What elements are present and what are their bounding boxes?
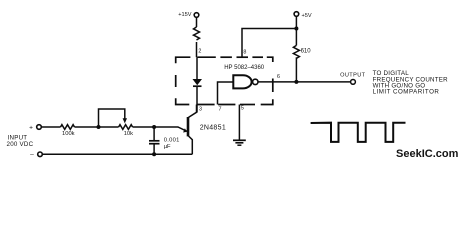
NAND gate U1a	[233, 75, 258, 88]
wire pin 7 to gate input	[218, 82, 234, 105]
svg-text:5: 5	[241, 105, 244, 111]
ground	[233, 140, 246, 145]
wire photodiode to pin 3	[196, 86, 198, 112]
svg-text:+15V: +15V	[178, 12, 191, 18]
photodiode D1	[193, 79, 203, 86]
svg-text:0.001: 0.001	[164, 137, 180, 143]
svg-text:3: 3	[199, 106, 202, 112]
wire + terminal to 100k	[41, 126, 60, 128]
wire - terminal bottom rail	[42, 153, 192, 155]
potentiometer 10k	[119, 125, 134, 138]
svg-text:–: –	[30, 151, 34, 158]
wire +5V down	[295, 16, 297, 45]
wire junction to pin 8	[242, 29, 296, 58]
svg-text:SeekIC.com: SeekIC.com	[396, 148, 459, 160]
wire pot to cap junction and UJT emitter	[133, 126, 179, 128]
+5V supply terminal	[294, 12, 312, 20]
wire pin 5 to ground	[238, 105, 240, 141]
svg-text:LIMIT COMPARITOR: LIMIT COMPARITOR	[373, 89, 440, 96]
output waveform	[311, 123, 406, 142]
svg-text:OUTPUT: OUTPUT	[340, 72, 366, 78]
node junction capacitor top	[152, 125, 156, 129]
svg-text:6: 6	[277, 74, 280, 80]
svg-text:610: 610	[301, 49, 312, 55]
resistor 610	[293, 45, 311, 58]
wire resistor to pin 2	[196, 42, 198, 57]
+15V supply terminal	[178, 12, 199, 18]
svg-text:+: +	[29, 124, 33, 131]
wire pin2 into photodiode	[196, 57, 198, 79]
wire +15V to resistor	[196, 17, 198, 27]
svg-text:100k: 100k	[62, 131, 75, 137]
svg-text:2: 2	[198, 49, 201, 55]
INPUT - terminal	[30, 151, 42, 158]
resistor 100k	[61, 125, 75, 138]
svg-text:200 VDC: 200 VDC	[7, 141, 34, 148]
wire bypass over pot	[99, 109, 125, 127]
capacitor C1 0.001uF	[149, 127, 180, 154]
resistor R1 (from +15V)	[194, 27, 200, 40]
svg-text:2N4851: 2N4851	[200, 125, 226, 132]
INPUT + terminal	[29, 124, 41, 131]
wire 100k to pot	[75, 126, 119, 128]
node junction capacitor bottom	[152, 152, 156, 156]
annotation to digital counter	[373, 70, 449, 95]
svg-text:HP 5082–4360: HP 5082–4360	[224, 65, 265, 71]
pot wiper arrow	[123, 118, 127, 123]
svg-text:7: 7	[219, 107, 222, 113]
node junction bypass	[97, 125, 101, 129]
svg-text:µF: µF	[164, 144, 171, 150]
OUTPUT terminal	[340, 72, 366, 84]
svg-text:10k: 10k	[124, 131, 133, 137]
IC U1 dashed outline HP 5082-4360	[176, 57, 273, 104]
INPUT label	[7, 135, 34, 149]
node junction output/610	[294, 80, 298, 84]
wire gate output to OUTPUT terminal	[258, 81, 351, 83]
svg-text:+5V: +5V	[302, 13, 312, 19]
svg-text:8: 8	[243, 49, 246, 55]
wire 610 to output line	[295, 57, 297, 82]
node junction +5V/pin8	[294, 27, 298, 31]
transistor Q1 2N4851	[178, 105, 226, 155]
